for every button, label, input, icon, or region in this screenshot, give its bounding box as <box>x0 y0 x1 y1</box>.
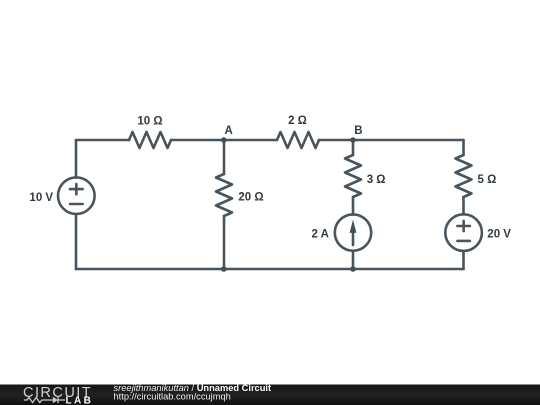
wire node B to top-right corner <box>353 139 464 142</box>
resistor 2ohm horizontal <box>277 132 319 148</box>
wire top-left: left corner to 10ohm <box>76 139 129 142</box>
minus sign of 20V <box>457 240 470 243</box>
svg-text:10 Ω: 10 Ω <box>137 115 162 127</box>
wire node A to 2ohm <box>224 139 277 142</box>
wire 20ohm to bottom <box>223 216 226 269</box>
wire bottom rail <box>76 268 464 271</box>
logo diode triangle <box>53 397 58 403</box>
current source arrowhead <box>350 220 357 233</box>
svg-text:http://circuitlab.com/ccujmqh: http://circuitlab.com/ccujmqh <box>114 392 231 402</box>
resistor 3ohm vertical <box>345 155 361 197</box>
voltage source 20V circle <box>445 214 482 251</box>
resistor 5ohm vertical <box>456 155 472 197</box>
wire 3ohm to current source <box>352 197 355 215</box>
svg-text:2 Ω: 2 Ω <box>288 115 307 127</box>
node dot bottom left-middle <box>221 266 227 272</box>
svg-text:5 Ω: 5 Ω <box>478 174 497 186</box>
wire node A down to 20ohm <box>223 140 226 174</box>
current source arrow tail <box>352 230 355 245</box>
wire 5ohm to 20V source <box>462 197 465 214</box>
voltage source V1 10V circle <box>58 177 95 214</box>
plus sign of 10V <box>70 184 83 194</box>
wire top-right corner down to 5ohm <box>462 140 465 155</box>
wire 2ohm to node B <box>319 139 353 142</box>
svg-text:20 Ω: 20 Ω <box>238 192 263 204</box>
node dot bottom right-middle <box>350 266 356 272</box>
resistor R 10ohm horizontal <box>129 132 171 148</box>
svg-text:A: A <box>225 125 233 137</box>
minus sign of 10V <box>70 203 83 206</box>
node dot B top <box>350 137 356 143</box>
wire current source to bottom <box>352 251 355 269</box>
plus sign of 20V <box>457 221 470 231</box>
svg-text:20 V: 20 V <box>487 228 511 240</box>
logo resistor squiggle and diode line <box>24 397 65 403</box>
svg-text:B: B <box>354 125 362 137</box>
wire left branch upper (corner down to 10V source) <box>75 140 78 177</box>
wire 10ohm to node A <box>171 139 224 142</box>
svg-text:10 V: 10 V <box>29 192 53 204</box>
wire node B down to 3ohm <box>352 140 355 155</box>
resistor 20ohm vertical <box>216 174 232 216</box>
svg-text:LAB: LAB <box>66 395 94 405</box>
wire left branch lower (10V source to bottom corner) <box>75 214 78 269</box>
wire 20V source to bottom-right corner <box>462 251 465 269</box>
svg-text:2 A: 2 A <box>312 229 329 241</box>
svg-text:3 Ω: 3 Ω <box>367 174 386 186</box>
node dot A top <box>221 137 227 143</box>
current source I1 2A circle <box>335 214 371 250</box>
